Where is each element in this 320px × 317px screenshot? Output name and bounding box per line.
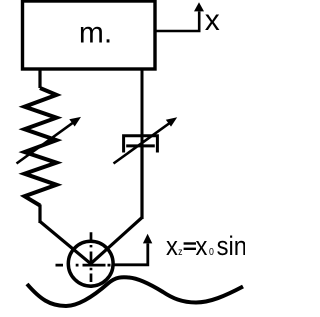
label xz = x0 sin	[166, 231, 247, 261]
spring adjustability arrow	[17, 117, 82, 164]
damper adjustability arrow	[114, 117, 178, 163]
damper cylinder cup	[124, 136, 158, 153]
svg-text:sin: sin	[217, 231, 245, 261]
wire: line from mass to x arrow	[155, 12, 199, 32]
wire: spring leg to wheel center	[40, 222, 91, 264]
road surface wave	[27, 277, 243, 306]
svg-text:0: 0	[209, 245, 214, 257]
arrow xz (base excitation)	[143, 234, 152, 244]
damper rod (top)	[141, 69, 144, 146]
mass block m	[23, 1, 156, 69]
svg-text:x: x	[205, 4, 220, 37]
wheel (contact roller)	[68, 241, 113, 286]
wheel center horizontal crosshair	[56, 264, 111, 267]
wire: line from wheel to xz arrow	[113, 244, 148, 265]
damper rod (bottom) and link to wheel	[140, 146, 143, 219]
wheel center vertical crosshair	[90, 232, 93, 288]
spring (zigzag)	[25, 69, 57, 223]
svg-text:x: x	[166, 231, 178, 261]
wire: damper leg to wheel center	[91, 218, 142, 264]
svg-text:m.: m.	[79, 16, 112, 49]
label x	[205, 4, 220, 37]
arrow x (displacement of mass)	[194, 2, 204, 11]
label m.	[79, 16, 112, 49]
svg-text:z: z	[178, 245, 183, 257]
damper piston plate	[126, 144, 155, 147]
svg-text:x: x	[195, 231, 207, 261]
